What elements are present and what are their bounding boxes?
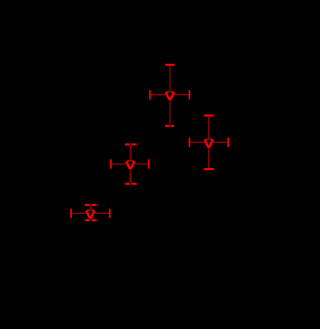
pin cap Q4 gate bbox=[70, 209, 72, 218]
wire Q4 bulk stub bbox=[94, 212, 109, 214]
wire Q3 drain stub bbox=[129, 145, 131, 161]
transistor Q4 bbox=[70, 204, 110, 221]
pin cap Q1 drain bbox=[165, 64, 174, 66]
transistor Q1 symbol bbox=[165, 91, 175, 100]
pin cap Q2 bulk bbox=[227, 138, 229, 147]
wire Q4 source stub bbox=[89, 218, 91, 219]
pin cap Q3 gate bbox=[110, 159, 112, 168]
transistor Q3 symbol bbox=[125, 160, 135, 169]
wire Q1 source stub bbox=[169, 100, 171, 125]
pin cap Q4 drain (split) bbox=[85, 204, 97, 206]
wire Q3 source stub bbox=[129, 169, 131, 183]
wire Q2 drain stub bbox=[208, 116, 210, 140]
wire Q4 gate stub bbox=[72, 212, 87, 214]
wire Q4 drain stub bbox=[89, 205, 91, 210]
pin cap Q1 gate bbox=[149, 90, 151, 99]
wire Q1 bulk stub bbox=[174, 94, 189, 96]
transistor Q2 bbox=[189, 115, 229, 171]
pin cap Q1 bulk bbox=[189, 90, 191, 99]
pin cap Q1 source (split) bbox=[165, 125, 174, 127]
wire Q2 bulk stub bbox=[213, 141, 228, 143]
transistor Q2 symbol bbox=[204, 139, 214, 148]
pin cap Q2 gate bbox=[189, 138, 191, 147]
wire Q1 gate stub bbox=[151, 94, 166, 96]
pin cap Q4 bulk bbox=[109, 209, 111, 218]
wire Q3 bulk stub bbox=[134, 163, 149, 165]
wire Q2 source stub bbox=[208, 147, 210, 168]
wire Q1 drain stub bbox=[169, 66, 171, 93]
transistor Q1 bbox=[149, 64, 190, 127]
pin cap Q3 drain (split) bbox=[125, 143, 137, 145]
wire Q3 gate stub bbox=[111, 163, 126, 165]
pin cap Q2 source bbox=[204, 168, 214, 170]
transistor Q4 symbol bbox=[85, 210, 95, 219]
pin cap Q3 bulk bbox=[148, 159, 150, 168]
pin cap Q3 source (split) bbox=[125, 183, 137, 185]
pin cap Q2 drain bbox=[204, 115, 214, 117]
wire Q2 gate stub bbox=[190, 141, 205, 143]
transistor Q3 bbox=[110, 143, 150, 184]
pin cap Q4 source (split) bbox=[85, 219, 97, 221]
